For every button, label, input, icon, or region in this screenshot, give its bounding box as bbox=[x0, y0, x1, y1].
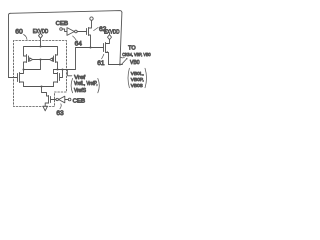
svg-text:63: 63 bbox=[56, 110, 64, 117]
wire feedback loop: right border bbox=[120, 13, 122, 65]
wire amp supply rail bbox=[24, 47, 58, 57]
wire EXVDD1 to amp rail bbox=[40, 38, 42, 46]
svg-text:64: 64 bbox=[75, 41, 83, 48]
transistor M6 PMOS pull-up 62 bbox=[87, 20, 92, 47]
leader for 60 bbox=[24, 35, 28, 40]
leader for 61 bbox=[102, 54, 104, 59]
node M1 drain dot bbox=[23, 69, 25, 71]
node M4 gate feedback dot bbox=[62, 69, 64, 71]
svg-text:VrefL, VrefP,: VrefL, VrefP, bbox=[74, 81, 98, 87]
svg-text:Vref: Vref bbox=[74, 75, 85, 81]
label VB0 list paren left bbox=[128, 68, 129, 88]
gate arrow of M1 bbox=[30, 58, 33, 61]
node tail junction dot bbox=[41, 86, 43, 88]
terminal CEB top bbox=[60, 28, 63, 31]
arrow to VB0 label bbox=[122, 59, 127, 64]
svg-text:CEB: CEB bbox=[56, 21, 69, 27]
leader for 62 bbox=[94, 27, 99, 30]
label VB0 list paren right bbox=[145, 68, 147, 88]
wire output node VB0 bbox=[109, 64, 123, 66]
node M6 drain dot bbox=[90, 47, 92, 49]
svg-text:VB0S: VB0S bbox=[131, 83, 144, 89]
wire inverter 63 input bbox=[65, 99, 68, 101]
svg-text:VB0P,: VB0P, bbox=[131, 77, 144, 83]
terminal CEB bottom bbox=[68, 98, 71, 101]
svg-text:61: 61 bbox=[97, 60, 105, 67]
wire gate line between PMOS pair bbox=[33, 59, 50, 61]
label Vref leader bbox=[68, 70, 72, 76]
wire diode connection of M1 bbox=[24, 60, 41, 70]
wire CEB to inverter 64 bbox=[62, 29, 67, 32]
wire EXVDD2 to M7 drain bbox=[106, 40, 110, 44]
source arrow of M7 bbox=[106, 51, 108, 53]
wire feedback loop: top border bbox=[10, 11, 122, 14]
transistor M4 NMOS right feedback bbox=[54, 70, 60, 87]
inverter 64 bbox=[67, 28, 74, 36]
transistor M1 PMOS left (mirror diode) bbox=[24, 55, 29, 70]
dashed box 60 bbox=[14, 41, 67, 107]
transistor M3 NMOS left input bbox=[9, 70, 24, 87]
wire inverter 64 output to M6 gate bbox=[77, 31, 86, 33]
leader for 63 bbox=[60, 104, 61, 109]
svg-text:TO: TO bbox=[128, 46, 136, 52]
node gate line dot bbox=[40, 59, 42, 61]
gate arrow of M2 bbox=[50, 58, 53, 61]
EXVDD supply 2 symbol bbox=[108, 34, 112, 40]
svg-text:CEB: CEB bbox=[73, 99, 86, 105]
svg-text:EXVDD: EXVDD bbox=[104, 30, 120, 36]
ground symbol bbox=[43, 106, 48, 111]
terminal top of M6 bbox=[90, 17, 93, 20]
node feedback join dot bbox=[119, 64, 121, 66]
transistor M7 NMOS output driver 61 bbox=[104, 43, 109, 65]
wire amp sources join bbox=[24, 86, 54, 88]
transistor M2 PMOS right bbox=[54, 55, 58, 70]
wire M4 gate to output node bbox=[60, 70, 63, 78]
EXVDD supply 1 symbol bbox=[39, 33, 43, 39]
inverter 63 bbox=[56, 98, 58, 100]
svg-text:VB0L,: VB0L, bbox=[131, 71, 144, 77]
svg-text:EXVDD: EXVDD bbox=[33, 29, 49, 35]
wire tail drop bbox=[42, 87, 49, 97]
svg-text:VrefS: VrefS bbox=[74, 88, 87, 94]
node rail junction dot bbox=[40, 46, 42, 48]
svg-text:CK64, VBP, VB0: CK64, VBP, VB0 bbox=[122, 52, 151, 58]
wire amp output node bbox=[54, 48, 104, 70]
node M2 drain dot bbox=[57, 69, 59, 71]
leader for 64 bbox=[73, 36, 76, 40]
svg-text:60: 60 bbox=[15, 29, 23, 36]
leader for TO bbox=[121, 56, 125, 59]
label Vref list line1 bbox=[71, 78, 73, 92]
wire feedback loop: left border bbox=[9, 13, 11, 77]
transistor M5 NMOS tail bbox=[45, 96, 56, 107]
svg-text:VB0: VB0 bbox=[130, 60, 140, 66]
